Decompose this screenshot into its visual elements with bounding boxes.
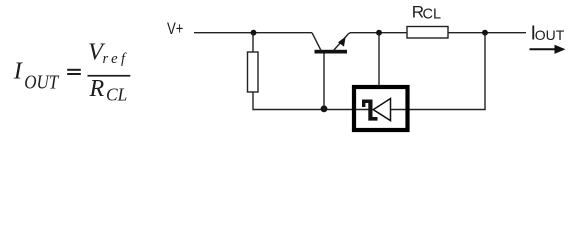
shunt reference U1 package box (thick) (354, 87, 408, 130)
transistor Q1 base lead (323, 53, 325, 110)
fraction bar of formula (88, 75, 131, 77)
wire RCL right to output (448, 32, 526, 34)
junction node: emitter / RCL left / U1 ref (376, 30, 382, 36)
svg-text:I: I (13, 58, 24, 85)
resistor RCL (horizontal) (407, 27, 448, 39)
svg-text:CL: CL (423, 6, 442, 22)
svg-text:OUT: OUT (24, 71, 60, 93)
diode D1 triangle (inside U1) (373, 99, 390, 121)
svg-text:R: R (89, 76, 105, 102)
junction node: RCL right / U1 cathode (482, 30, 488, 36)
svg-text:ref: ref (103, 51, 127, 67)
svg-text:OUT: OUT (535, 27, 565, 43)
junction node: V+ rail / R1 (251, 30, 257, 36)
label IOUT (531, 22, 565, 44)
formula IOUT = Vref / RCL (13, 39, 128, 105)
wire R1 top stub (252, 33, 254, 52)
transistor Q1 emitter lead with arrow (334, 34, 349, 51)
arrow IOUT direction (530, 45, 566, 54)
wire into U1 left (anode side from base net) (352, 109, 369, 111)
svg-text:CL: CL (106, 85, 127, 105)
wire R1 bottom to base net (253, 92, 352, 110)
equals sign of formula (67, 69, 81, 75)
wire output node down to U1 anode side (409, 33, 485, 110)
transistor Q1 collector lead (312, 33, 321, 51)
diode D1 zener cathode (bent bar) (362, 100, 378, 121)
wire U1 reference pin (vertical into box top) (378, 33, 380, 87)
transistor Q1 base bar (315, 50, 348, 54)
junction node: base of Q1 on bottom wire (321, 105, 328, 112)
label RCL (412, 3, 441, 23)
resistor R1 (bias resistor, vertical) (248, 52, 259, 92)
wire V+ rail to transistor collector (194, 32, 312, 34)
wire emitter to RCL node (349, 32, 408, 35)
wire inside U1 from diode to right border (391, 109, 410, 111)
svg-text:V+: V+ (167, 19, 184, 38)
